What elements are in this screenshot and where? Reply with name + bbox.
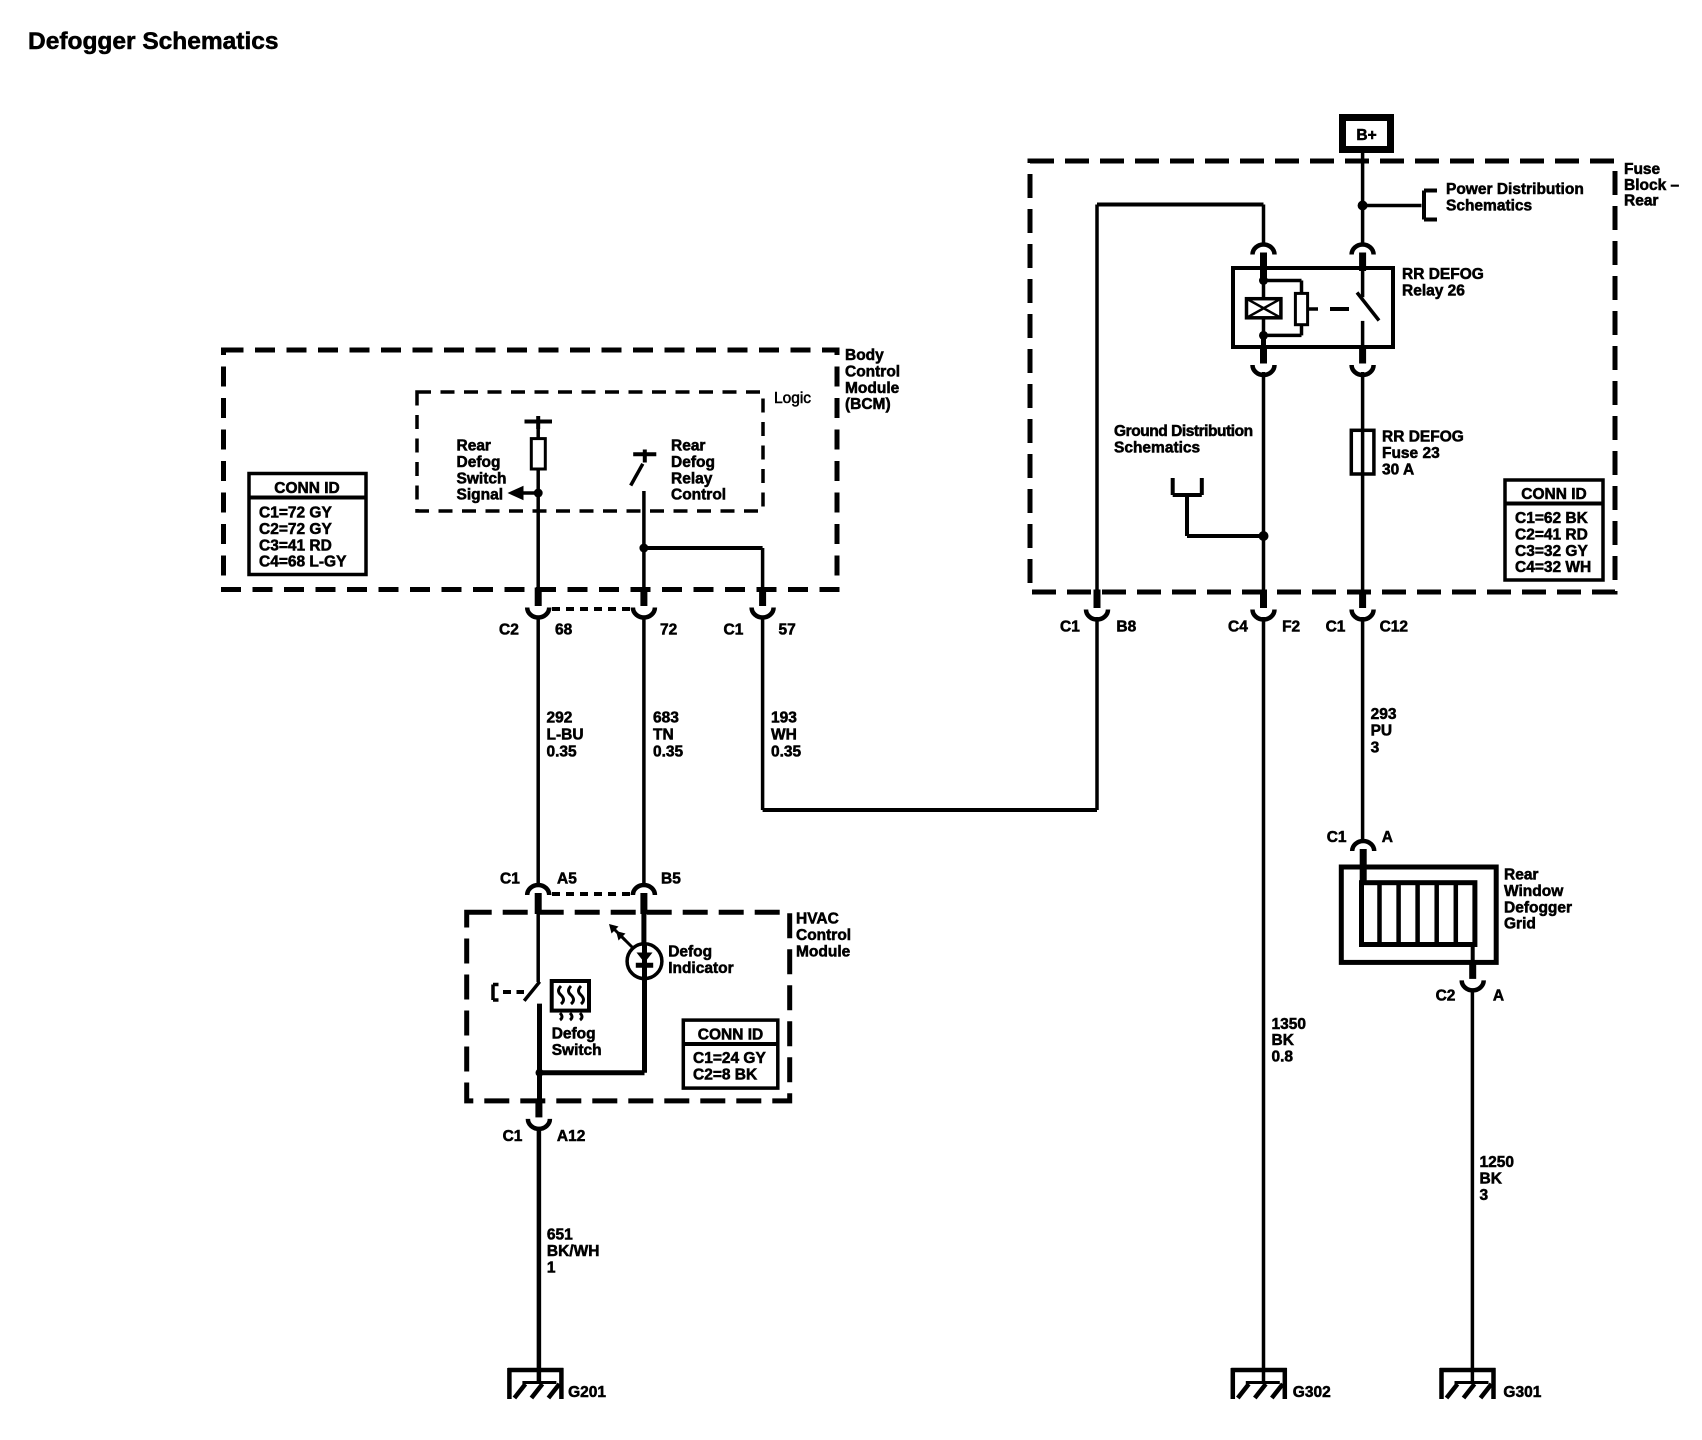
ground G302 bbox=[1231, 1368, 1287, 1399]
wire supply to resistor R bbox=[536, 422, 540, 440]
svg-text:C3=32 GY: C3=32 GY bbox=[1515, 543, 1588, 560]
svg-text:A12: A12 bbox=[557, 1128, 585, 1145]
node coil top junction bbox=[1259, 276, 1268, 285]
wire 651 BK/WH bbox=[537, 1129, 542, 1385]
svg-text:TN: TN bbox=[653, 726, 674, 743]
wire B5 to indicator bbox=[641, 912, 646, 945]
wire coil bottom to connector bbox=[1261, 335, 1266, 348]
node internal supply tick (relay control) bbox=[633, 452, 656, 456]
svg-text:A5: A5 bbox=[557, 871, 577, 888]
node switch output junction bbox=[536, 1069, 544, 1077]
node relay-control junction bbox=[639, 544, 648, 553]
svg-text:B8: B8 bbox=[1116, 619, 1136, 636]
relay box RR DEFOG Relay 26 bbox=[1233, 268, 1393, 347]
svg-text:C1: C1 bbox=[724, 622, 744, 639]
wire 72 inside BCM bbox=[642, 491, 646, 590]
conn table CONN ID (BCM) bbox=[249, 474, 366, 575]
node B+ tap junction bbox=[1358, 201, 1368, 211]
svg-text:BK/WH: BK/WH bbox=[547, 1243, 600, 1260]
svg-text:CONN ID: CONN ID bbox=[274, 480, 339, 497]
wire fuse down bbox=[1361, 474, 1365, 592]
conn table CONN ID (HVAC) bbox=[683, 1020, 778, 1088]
defogger grid inner box bbox=[1362, 883, 1475, 945]
svg-text:C4=32 WH: C4=32 WH bbox=[1515, 559, 1591, 576]
svg-text:3: 3 bbox=[1480, 1187, 1489, 1204]
wire 1250 BK bbox=[1471, 990, 1475, 1384]
svg-text:Defogger: Defogger bbox=[1504, 899, 1572, 916]
relay suppression resistor branch bbox=[1264, 279, 1302, 283]
node ground-dist junction bbox=[1259, 531, 1269, 541]
wire 57 feed inside fuse block bbox=[1095, 205, 1099, 593]
svg-text:PU: PU bbox=[1371, 723, 1393, 740]
heated-window icon (defog symbol) bbox=[552, 981, 589, 1011]
defogger grid bars bbox=[1377, 883, 1382, 945]
wire to A12 bbox=[537, 1073, 542, 1100]
wire branch to pin 57 bbox=[644, 546, 763, 550]
svg-text:G201: G201 bbox=[568, 1384, 606, 1401]
svg-text:Block –: Block – bbox=[1624, 177, 1680, 194]
svg-text:Window: Window bbox=[1504, 883, 1564, 900]
svg-text:1350: 1350 bbox=[1272, 1016, 1306, 1033]
relay armature linkage dash bbox=[1330, 307, 1349, 311]
LED circle (Defog Indicator) bbox=[627, 944, 662, 979]
connector relay coil bottom bbox=[1253, 345, 1275, 375]
svg-text:Power Distribution: Power Distribution bbox=[1446, 181, 1584, 198]
switch linkage dashes bbox=[503, 990, 524, 994]
svg-text:Relay: Relay bbox=[671, 470, 713, 487]
wire coil leg in fuse block bbox=[1262, 372, 1266, 592]
svg-text:683: 683 bbox=[653, 709, 679, 726]
svg-text:C2=72 GY: C2=72 GY bbox=[259, 521, 332, 538]
svg-text:Fuse: Fuse bbox=[1624, 161, 1661, 178]
svg-text:Ground Distribution: Ground Distribution bbox=[1114, 423, 1253, 440]
svg-text:C1=72 GY: C1=72 GY bbox=[259, 505, 332, 522]
svg-text:(BCM): (BCM) bbox=[845, 396, 891, 413]
svg-text:0.35: 0.35 bbox=[771, 743, 802, 760]
svg-text:HVAC: HVAC bbox=[796, 911, 839, 928]
wire A5 to defog switch bbox=[536, 912, 540, 982]
off-page bracket (ground distribution) bbox=[1171, 478, 1175, 495]
connector relay coil top bbox=[1253, 245, 1275, 281]
svg-text:Defog: Defog bbox=[457, 454, 501, 471]
svg-text:L-BU: L-BU bbox=[547, 726, 584, 743]
wire through LED bbox=[642, 945, 647, 979]
svg-text:1: 1 bbox=[547, 1260, 556, 1277]
logic box bbox=[417, 392, 763, 511]
svg-text:B5: B5 bbox=[661, 871, 681, 888]
svg-text:C1: C1 bbox=[1060, 619, 1080, 636]
connector C1 pin A5 bbox=[527, 885, 549, 914]
svg-text:72: 72 bbox=[660, 622, 677, 639]
wire 683 TN bbox=[642, 617, 646, 884]
svg-text:C1: C1 bbox=[503, 1128, 523, 1145]
svg-text:C2: C2 bbox=[499, 622, 519, 639]
svg-text:Rear: Rear bbox=[457, 438, 491, 455]
connector C1 pin B8 bbox=[1086, 590, 1108, 620]
connector pin 72 bbox=[633, 588, 655, 618]
svg-text:BK: BK bbox=[1272, 1032, 1295, 1049]
svg-text:C1: C1 bbox=[1327, 829, 1347, 846]
svg-text:C3=41 RD: C3=41 RD bbox=[259, 537, 332, 554]
svg-text:Defog: Defog bbox=[552, 1026, 596, 1043]
relay switch upper wire bbox=[1361, 271, 1365, 297]
svg-text:CONN ID: CONN ID bbox=[698, 1027, 763, 1044]
svg-text:3: 3 bbox=[1371, 739, 1380, 756]
svg-text:30 A: 30 A bbox=[1382, 461, 1414, 478]
wire resistor to node bbox=[536, 469, 540, 494]
svg-text:C4: C4 bbox=[1228, 619, 1248, 636]
svg-text:BK: BK bbox=[1480, 1170, 1503, 1187]
node coil bottom junction bbox=[1259, 331, 1268, 340]
ground G301 bbox=[1440, 1368, 1496, 1399]
svg-text:Defog: Defog bbox=[671, 454, 715, 471]
svg-text:Rear: Rear bbox=[1624, 193, 1658, 210]
svg-text:68: 68 bbox=[555, 622, 573, 639]
module box BCM (Body Control Module) bbox=[224, 350, 838, 590]
svg-text:Grid: Grid bbox=[1504, 916, 1536, 933]
svg-text:Schematics: Schematics bbox=[1446, 197, 1532, 214]
svg-text:C1: C1 bbox=[500, 871, 520, 888]
svg-text:Switch: Switch bbox=[457, 470, 507, 487]
svg-text:Control: Control bbox=[845, 363, 900, 380]
svg-text:C2=8 BK: C2=8 BK bbox=[693, 1066, 758, 1083]
svg-text:Fuse 23: Fuse 23 bbox=[1382, 445, 1440, 462]
svg-text:Switch: Switch bbox=[552, 1042, 602, 1059]
svg-text:0.35: 0.35 bbox=[547, 743, 578, 760]
svg-text:F2: F2 bbox=[1282, 619, 1300, 636]
svg-text:G301: G301 bbox=[1503, 1384, 1541, 1401]
relay armature linkage stub bbox=[1308, 307, 1318, 311]
svg-text:Rear: Rear bbox=[671, 438, 705, 455]
svg-text:0.35: 0.35 bbox=[653, 743, 684, 760]
svg-text:C2=41 RD: C2=41 RD bbox=[1515, 526, 1588, 543]
resistor R1 (switch signal pull-up) bbox=[531, 439, 545, 469]
connector relay switch top bbox=[1352, 245, 1374, 272]
svg-text:C12: C12 bbox=[1380, 619, 1408, 636]
svg-text:57: 57 bbox=[779, 622, 796, 639]
svg-text:Indicator: Indicator bbox=[668, 960, 733, 977]
ground G201 bbox=[508, 1368, 564, 1399]
svg-text:Control: Control bbox=[796, 927, 851, 944]
wire B+ down bbox=[1361, 151, 1365, 244]
svg-text:293: 293 bbox=[1371, 706, 1397, 723]
connector tie line (68-72) bbox=[552, 607, 632, 611]
svg-text:C1: C1 bbox=[1326, 619, 1346, 636]
svg-text:Signal: Signal bbox=[457, 487, 504, 504]
svg-text:292: 292 bbox=[547, 709, 573, 726]
svg-text:Control: Control bbox=[671, 487, 726, 504]
fuse RR DEFOG Fuse 23 30A bbox=[1351, 430, 1374, 474]
svg-text:Schematics: Schematics bbox=[1114, 439, 1200, 456]
svg-text:C1=62 BK: C1=62 BK bbox=[1515, 510, 1589, 527]
off-page bracket (power distribution) bbox=[1422, 191, 1426, 220]
module box HVAC Control Module bbox=[467, 912, 790, 1101]
connector pin B5 bbox=[633, 885, 655, 914]
switch blade (relay control driver) bbox=[631, 464, 643, 486]
power feed B+ box bbox=[1343, 118, 1391, 150]
signal arrow (to logic) bbox=[517, 491, 538, 495]
svg-text:A: A bbox=[1493, 988, 1504, 1005]
node switch-signal junction bbox=[534, 489, 543, 498]
svg-text:C4=68 L-GY: C4=68 L-GY bbox=[259, 554, 347, 571]
wire 1350 BK bbox=[1262, 617, 1266, 1384]
svg-text:1250: 1250 bbox=[1480, 1154, 1514, 1171]
svg-text:193: 193 bbox=[771, 709, 797, 726]
node internal supply tick (switch signal) bbox=[525, 420, 553, 424]
svg-text:CONN ID: CONN ID bbox=[1521, 486, 1586, 503]
wire 193 WH bbox=[761, 617, 765, 810]
svg-text:B+: B+ bbox=[1356, 127, 1376, 144]
svg-text:G302: G302 bbox=[1293, 1384, 1331, 1401]
switch linkage bracket bbox=[491, 985, 495, 1001]
defog switch blade bbox=[524, 982, 540, 1001]
svg-text:A: A bbox=[1382, 829, 1393, 846]
defogger grid outer box bbox=[1341, 867, 1496, 962]
wire grid exit bbox=[1471, 945, 1475, 964]
svg-text:Rear: Rear bbox=[1504, 867, 1538, 884]
wire 293 PU bbox=[1361, 617, 1365, 840]
connector C1 pin C12 bbox=[1352, 590, 1374, 620]
svg-text:0.8: 0.8 bbox=[1272, 1048, 1294, 1065]
wire switch leg to fuse bbox=[1361, 372, 1365, 430]
svg-text:C2: C2 bbox=[1436, 988, 1456, 1005]
svg-text:WH: WH bbox=[771, 726, 797, 743]
connector C1 pin A12 bbox=[528, 1099, 550, 1129]
connector C4 pin F2 bbox=[1253, 590, 1275, 620]
connector C2 pin A (grid) bbox=[1462, 960, 1484, 990]
wire indicator to switch node bbox=[540, 1070, 645, 1075]
fuse block box bbox=[1030, 161, 1615, 592]
svg-text:Relay 26: Relay 26 bbox=[1402, 282, 1465, 299]
conn table CONN ID (fuse block) bbox=[1505, 480, 1603, 580]
connector C2 pin 68 bbox=[527, 588, 549, 618]
svg-text:Defog: Defog bbox=[668, 944, 712, 961]
relay switch armature bbox=[1357, 293, 1379, 321]
relay coil (box with X) bbox=[1247, 299, 1281, 318]
svg-text:C1=24 GY: C1=24 GY bbox=[693, 1050, 766, 1067]
svg-text:RR DEFOG: RR DEFOG bbox=[1402, 266, 1484, 283]
wire switch lower terminal bbox=[537, 1004, 542, 1073]
svg-text:RR DEFOG: RR DEFOG bbox=[1382, 429, 1464, 446]
wire indicator down bbox=[642, 979, 647, 1073]
svg-text:Module: Module bbox=[796, 943, 851, 960]
wire 68 inside BCM bbox=[536, 493, 540, 590]
connector relay switch bottom bbox=[1352, 345, 1374, 375]
wire to power distribution ref bbox=[1363, 204, 1422, 208]
connector C1 pin A (grid) bbox=[1352, 841, 1374, 884]
svg-text:Logic: Logic bbox=[774, 390, 811, 407]
connector tie line (A5-B5) bbox=[552, 892, 632, 896]
svg-text:Defogger Schematics: Defogger Schematics bbox=[28, 28, 279, 55]
connector C1 pin 57 bbox=[752, 588, 774, 618]
wire 292 L-BU bbox=[536, 617, 540, 884]
svg-text:Body: Body bbox=[845, 347, 884, 364]
svg-text:Module: Module bbox=[845, 380, 900, 397]
LED diode symbol bbox=[637, 953, 653, 963]
svg-text:651: 651 bbox=[547, 1226, 573, 1243]
relay switch lower wire bbox=[1361, 321, 1365, 348]
LED arrows (indicator light rays) bbox=[621, 936, 633, 948]
